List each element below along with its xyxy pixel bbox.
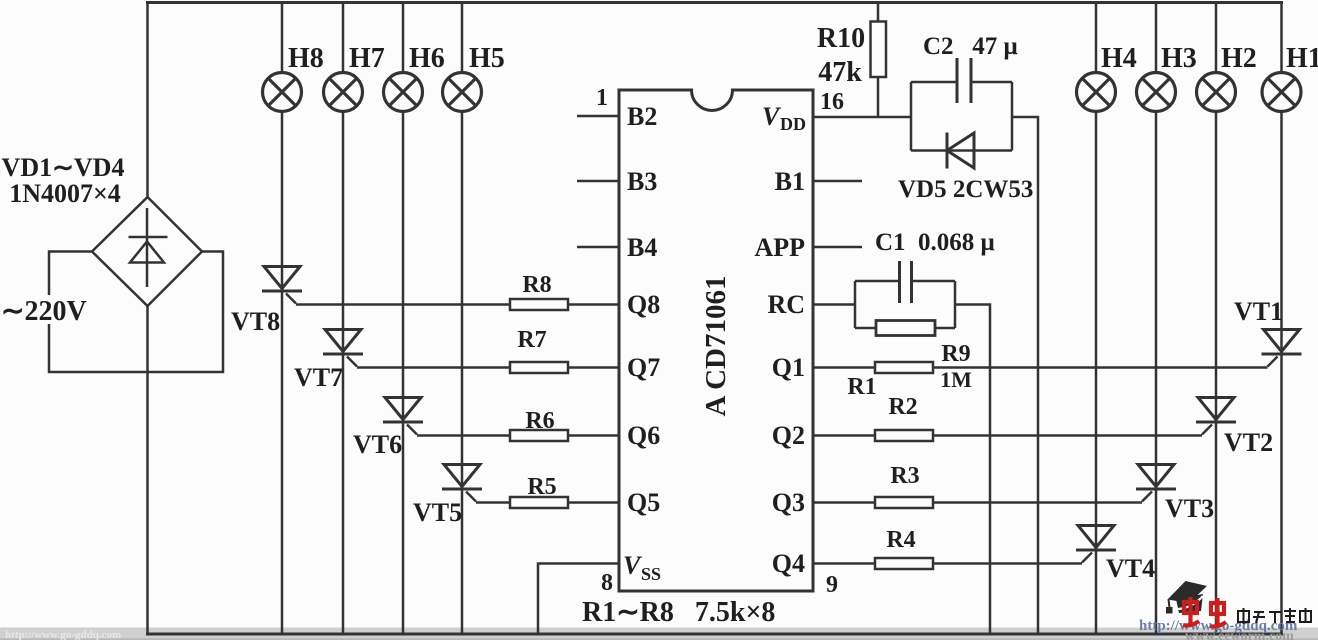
svg-text:Q4: Q4 — [772, 549, 805, 578]
svg-text:RC: RC — [767, 290, 805, 319]
thyristor VT2 — [1196, 398, 1236, 435]
svg-text:Q6: Q6 — [627, 421, 660, 450]
pin stub APP — [813, 246, 862, 249]
bridge rectifier VD1~VD4 — [92, 197, 202, 306]
svg-text:R3: R3 — [890, 463, 919, 489]
svg-text:B4: B4 — [627, 233, 657, 262]
wire bottom bus — [146, 633, 1283, 636]
wire H5 column — [461, 3, 464, 635]
svg-text:B3: B3 — [627, 167, 657, 196]
capacitor C1 RC loop — [855, 281, 955, 328]
wire VSS run — [538, 564, 619, 635]
wire H3 column — [1155, 3, 1158, 635]
wire H2 column — [1215, 3, 1218, 635]
svg-text:APP: APP — [754, 233, 805, 262]
wire RC row — [813, 303, 855, 306]
svg-text:H8: H8 — [288, 43, 324, 74]
watermark cap logo — [1166, 581, 1207, 614]
resistor R2 — [875, 430, 933, 441]
watermark red characters — [1183, 597, 1226, 627]
wire Q6 row — [417, 434, 619, 437]
svg-text:VT7: VT7 — [294, 363, 343, 392]
svg-text:VD1∼VD4: VD1∼VD4 — [2, 153, 125, 182]
svg-text:H6: H6 — [409, 43, 445, 74]
svg-text:V: V — [762, 102, 782, 131]
thyristor VT3 — [1136, 465, 1176, 502]
svg-text:R6: R6 — [525, 408, 554, 434]
svg-text:1M: 1M — [940, 367, 972, 392]
svg-text:R9: R9 — [941, 341, 970, 367]
wire RC loop right drop — [955, 305, 990, 635]
pin stub B2 pin1 — [577, 115, 619, 118]
svg-text:B1: B1 — [775, 167, 805, 196]
resistor R10 — [877, 3, 880, 118]
resistor R8 — [510, 299, 568, 310]
svg-text:Q5: Q5 — [627, 488, 660, 517]
wire Q3 row — [813, 501, 1142, 504]
lamp H3 — [1137, 73, 1176, 112]
resistor R7 — [510, 362, 568, 373]
svg-text:∼220V: ∼220V — [1, 296, 87, 327]
lamp H2 — [1197, 73, 1236, 112]
svg-text:R8: R8 — [522, 272, 551, 298]
IC U1 CD71061 body — [619, 90, 813, 591]
svg-text:9: 9 — [826, 572, 838, 598]
lamp H4 — [1077, 73, 1116, 112]
lamp H7 — [324, 73, 363, 112]
svg-text:SS: SS — [641, 564, 661, 584]
resistor R1 — [875, 362, 933, 373]
svg-text:R7: R7 — [517, 327, 546, 353]
lamp H1 — [1262, 73, 1301, 112]
watermark site name glyphs — [1238, 608, 1311, 624]
wire Q1 row — [813, 366, 1268, 369]
svg-text:Q2: Q2 — [772, 421, 805, 450]
svg-text:VT4: VT4 — [1106, 554, 1155, 583]
svg-text:V: V — [623, 551, 643, 580]
svg-text:8: 8 — [601, 570, 613, 596]
pin stub B3 — [577, 180, 619, 183]
lamp H5 — [443, 73, 482, 112]
wire top bus — [146, 1, 1283, 4]
wire VDD row pin16 — [813, 116, 911, 119]
wire Q5 row — [476, 501, 619, 504]
wire H8 column — [281, 3, 284, 635]
capacitor C1 plates — [898, 261, 901, 303]
wire C2 loop right drop — [1012, 117, 1038, 634]
svg-text:47k: 47k — [818, 57, 862, 88]
wire H6 column — [402, 3, 405, 635]
resistor R6 — [510, 430, 568, 441]
svg-text:C1 0.068 μ: C1 0.068 μ — [875, 229, 995, 256]
wire H4 column — [1095, 3, 1098, 635]
thyristor VT1 — [1262, 330, 1302, 367]
thyristor VT7 — [323, 330, 363, 367]
resistor R3 — [875, 497, 933, 508]
wire H1 column right border — [1280, 1, 1283, 634]
svg-text:VT5: VT5 — [413, 498, 462, 527]
wire AC source loop — [49, 252, 223, 373]
thyristor VT6 — [383, 398, 423, 435]
svg-text:VT8: VT8 — [231, 307, 280, 336]
svg-text:Q1: Q1 — [772, 353, 805, 382]
svg-text:1: 1 — [596, 85, 608, 111]
svg-text:C2 47 μ: C2 47 μ — [923, 33, 1018, 60]
thyristor VT8 — [262, 267, 302, 304]
wire Q2 row — [813, 434, 1202, 437]
svg-text:Q8: Q8 — [627, 290, 660, 319]
svg-text:VT3: VT3 — [1165, 494, 1214, 523]
svg-text:R10: R10 — [817, 23, 865, 54]
lamp H8 — [263, 73, 302, 112]
svg-text:R4: R4 — [886, 527, 915, 553]
capacitor C2 plates — [956, 58, 959, 103]
resistor R9 in RC loop — [876, 321, 935, 336]
svg-text:H3: H3 — [1161, 43, 1197, 74]
svg-text:www.eeworm.com: www.eeworm.com — [1185, 629, 1294, 640]
svg-text:B2: B2 — [627, 102, 657, 131]
wire Q7 row — [357, 366, 619, 369]
svg-text:H7: H7 — [349, 43, 385, 74]
thyristor VT4 — [1076, 526, 1116, 563]
svg-text:VD5 2CW53: VD5 2CW53 — [898, 176, 1033, 203]
svg-text:H5: H5 — [469, 43, 505, 74]
svg-text:H2: H2 — [1221, 43, 1257, 74]
wire Q4 row pin9 — [813, 562, 1082, 565]
svg-text:H4: H4 — [1101, 43, 1137, 74]
svg-text:R1∼R8 7.5k×8: R1∼R8 7.5k×8 — [582, 597, 775, 628]
wire left border top segment — [146, 1, 149, 197]
svg-text:VT2: VT2 — [1224, 428, 1273, 457]
capacitor C2 loop — [911, 82, 1012, 151]
lamp H6 — [384, 73, 423, 112]
svg-text:VT6: VT6 — [353, 430, 402, 459]
svg-text:A CD71061: A CD71061 — [700, 276, 732, 417]
svg-text:R1: R1 — [847, 374, 876, 400]
label ~220V — [0, 295, 91, 324]
resistor R5 — [510, 497, 568, 508]
svg-text:1N4007×4: 1N4007×4 — [9, 179, 121, 208]
svg-text:H1: H1 — [1286, 43, 1318, 74]
wire left border bottom segment — [146, 306, 149, 635]
svg-text:16: 16 — [820, 89, 844, 115]
zener diode VD5 — [946, 133, 949, 169]
resistor R4 — [875, 558, 933, 569]
svg-text:VT1: VT1 — [1234, 297, 1283, 326]
svg-text:R2: R2 — [888, 394, 917, 420]
svg-text:R5: R5 — [527, 474, 556, 500]
pin stub B4 — [577, 246, 619, 249]
thyristor VT5 — [442, 465, 482, 502]
watermark bar — [0, 628, 1318, 640]
pin stub B1 — [813, 180, 862, 183]
svg-text:Q3: Q3 — [772, 488, 805, 517]
svg-text:Q7: Q7 — [627, 353, 660, 382]
svg-text:http://www.go-gddq.com: http://www.go-gddq.com — [5, 629, 121, 640]
wire H7 column — [342, 3, 345, 635]
wire Q8 row — [296, 303, 619, 306]
svg-text:DD: DD — [780, 114, 806, 134]
